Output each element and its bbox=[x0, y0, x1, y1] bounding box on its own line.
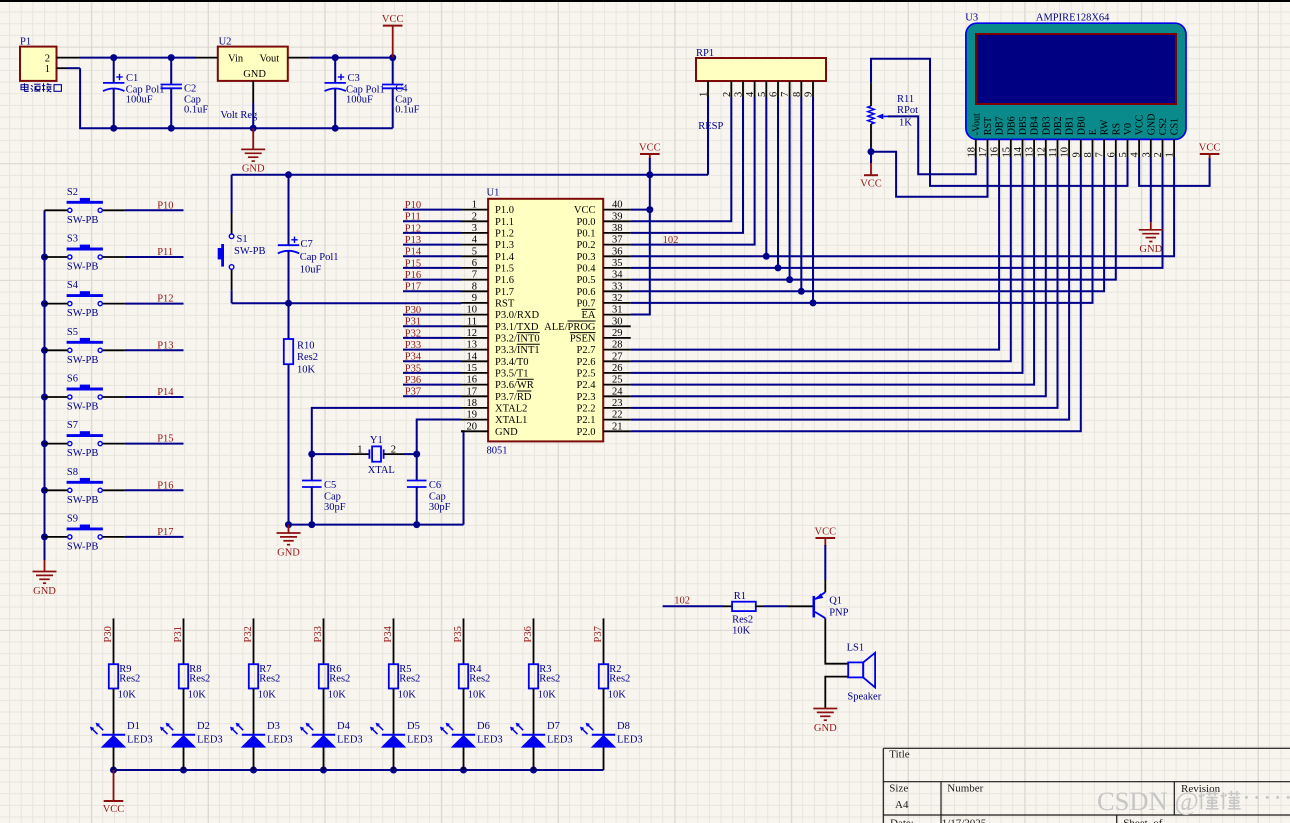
svg-text:P10: P10 bbox=[157, 200, 173, 211]
wire top rail left bbox=[80, 54, 197, 61]
svg-text:P13: P13 bbox=[157, 340, 173, 351]
svg-text:Sheet of: Sheet of bbox=[1123, 817, 1162, 823]
resistor R5 bbox=[389, 664, 421, 700]
svg-text:P10: P10 bbox=[405, 200, 421, 211]
svg-text:P3.6/WR: P3.6/WR bbox=[495, 380, 534, 391]
svg-text:P11: P11 bbox=[157, 247, 173, 258]
wire / net label P14 (switch row) bbox=[125, 387, 184, 398]
U1 pin 33 P0.6 bbox=[577, 281, 631, 298]
svg-text:P1.7: P1.7 bbox=[495, 287, 514, 298]
wire P0.1 to RP1 pin 3 bbox=[631, 97, 743, 233]
wire / net label P16 (U1 pin 7) bbox=[403, 270, 461, 281]
switch S2 bbox=[45, 187, 125, 226]
switch S1 bbox=[218, 175, 266, 303]
wire P0.4 to LCD bbox=[631, 97, 1163, 271]
svg-text:10K: 10K bbox=[118, 689, 137, 700]
U1 pin 4 P1.3 bbox=[461, 235, 514, 252]
U1 pin 2 P1.1 bbox=[461, 211, 514, 228]
resistor R6 bbox=[319, 664, 351, 700]
svg-text:Cap Pol1: Cap Pol1 bbox=[300, 252, 339, 263]
svg-text:P31: P31 bbox=[405, 317, 421, 328]
wire / net label P37 (LED column) bbox=[593, 618, 604, 664]
U3 pin 7 RW bbox=[1095, 119, 1111, 157]
wire / net label P10 (U1 pin 1) bbox=[403, 200, 461, 211]
wire / net label P11 (switch row) bbox=[125, 247, 184, 258]
U1 pin 10 P3.0/RXD bbox=[461, 305, 539, 322]
wire RST net bbox=[232, 300, 461, 307]
svg-text:C7: C7 bbox=[301, 239, 313, 250]
wire U2 GND to rail bbox=[252, 103, 254, 128]
U1 pin 28 P2.7 bbox=[577, 340, 631, 357]
svg-text:GND: GND bbox=[243, 69, 266, 80]
LED D8 bbox=[580, 689, 643, 771]
svg-text:36: 36 bbox=[612, 246, 623, 257]
svg-text:D2: D2 bbox=[197, 721, 210, 732]
U1 pin 29 PSEN bbox=[570, 328, 631, 345]
svg-text:P17: P17 bbox=[405, 282, 421, 293]
svg-text:P1.6: P1.6 bbox=[495, 275, 514, 286]
svg-text:P3.5/T1: P3.5/T1 bbox=[495, 369, 529, 380]
svg-text:Date:: Date: bbox=[890, 817, 914, 823]
svg-text:20: 20 bbox=[467, 421, 478, 432]
RP1 pin 6 drop bbox=[777, 97, 779, 268]
wire XTAL2 to pin 18 bbox=[308, 408, 461, 458]
svg-text:Res2: Res2 bbox=[189, 674, 210, 685]
svg-text:14: 14 bbox=[1013, 146, 1024, 157]
U1 pin 40 VCC bbox=[574, 200, 631, 217]
ground below speaker bbox=[813, 709, 837, 734]
wire / net label P33 (LED column) bbox=[313, 618, 324, 664]
svg-text:Number: Number bbox=[947, 783, 983, 795]
U3 pin 18 -Vout bbox=[966, 113, 982, 158]
svg-text:Size: Size bbox=[889, 783, 908, 795]
svg-text:11: 11 bbox=[1048, 147, 1059, 157]
svg-text:P11: P11 bbox=[405, 212, 421, 223]
svg-text:VCC: VCC bbox=[815, 527, 837, 538]
wire / net label P14 (U1 pin 5) bbox=[403, 247, 461, 258]
svg-text:35: 35 bbox=[612, 258, 623, 269]
svg-text:C6: C6 bbox=[429, 480, 441, 491]
wire P2.5 to LCD DB5 bbox=[631, 157, 1023, 373]
svg-text:RW: RW bbox=[1100, 119, 1111, 135]
svg-text:9: 9 bbox=[804, 92, 815, 97]
wire pot top to V0 (LCD pin 5) bbox=[870, 83, 872, 106]
svg-text:25: 25 bbox=[612, 375, 623, 386]
svg-text:10K: 10K bbox=[538, 689, 557, 700]
RP1 pin 9 bbox=[804, 81, 815, 97]
svg-text:LED3: LED3 bbox=[547, 735, 573, 746]
svg-text:XTAL1: XTAL1 bbox=[495, 415, 527, 426]
svg-text:SW-PB: SW-PB bbox=[67, 402, 99, 413]
U1 pin 14 P3.4/T0 bbox=[461, 351, 529, 368]
svg-text:VCC: VCC bbox=[860, 178, 882, 189]
wire / net label P35 (LED column) bbox=[453, 618, 464, 664]
svg-text:D6: D6 bbox=[477, 721, 490, 732]
svg-text:1: 1 bbox=[472, 200, 477, 211]
svg-text:P12: P12 bbox=[405, 223, 421, 234]
svg-text:P0.6: P0.6 bbox=[577, 287, 596, 298]
svg-text:XTAL2: XTAL2 bbox=[495, 404, 527, 415]
wire P2.0 to LCD DB0 bbox=[631, 157, 1081, 431]
svg-text:102: 102 bbox=[674, 595, 690, 606]
connector P1 bbox=[20, 36, 57, 81]
U1 pin 6 P1.5 bbox=[461, 258, 514, 275]
P1 pin 1 bbox=[57, 67, 67, 69]
voltage regulator U2 bbox=[218, 36, 288, 121]
svg-text:P15: P15 bbox=[405, 258, 421, 269]
svg-text:P0.7: P0.7 bbox=[577, 299, 596, 310]
wire / net label P31 (U1 pin 11) bbox=[403, 317, 461, 328]
svg-text:2: 2 bbox=[722, 92, 733, 97]
U2 pin Vin bbox=[196, 57, 218, 59]
capacitor C1 bbox=[103, 58, 164, 129]
U2 pin GND bbox=[252, 81, 254, 103]
svg-text:8: 8 bbox=[472, 281, 477, 292]
svg-text:RST: RST bbox=[495, 299, 515, 310]
svg-text:RP1: RP1 bbox=[696, 48, 714, 59]
svg-text:8: 8 bbox=[792, 92, 803, 97]
svg-text:9: 9 bbox=[1071, 152, 1082, 157]
capacitor C5 bbox=[302, 454, 346, 524]
svg-text:P3.2/INT0: P3.2/INT0 bbox=[495, 334, 540, 345]
U3 pin 4 VCC bbox=[1130, 114, 1146, 157]
switch S6 bbox=[45, 374, 125, 413]
LED D6 bbox=[440, 689, 503, 771]
svg-text:P34: P34 bbox=[383, 625, 394, 642]
svg-text:A4: A4 bbox=[895, 799, 909, 811]
svg-text:7: 7 bbox=[472, 270, 477, 281]
svg-text:28: 28 bbox=[612, 340, 623, 351]
svg-text:1/17/2025: 1/17/2025 bbox=[942, 817, 987, 823]
svg-text:S5: S5 bbox=[67, 327, 78, 338]
svg-text:100uF: 100uF bbox=[346, 95, 373, 106]
svg-text:GND: GND bbox=[495, 427, 518, 438]
wire P0.7 to LCD bbox=[631, 97, 1093, 306]
power port VCC below pot bbox=[860, 152, 882, 190]
svg-text:P13: P13 bbox=[405, 235, 421, 246]
svg-text:9: 9 bbox=[472, 293, 477, 304]
svg-text:6: 6 bbox=[769, 92, 780, 97]
svg-text:SW-PB: SW-PB bbox=[67, 355, 99, 366]
U3 pin 8 E bbox=[1083, 129, 1099, 157]
LED D1 bbox=[90, 689, 153, 771]
svg-text:E: E bbox=[1088, 129, 1099, 135]
crystal Y1 bbox=[312, 435, 417, 476]
svg-text:P31: P31 bbox=[173, 626, 184, 642]
wire P2.7 to LCD DB7 bbox=[631, 157, 999, 350]
svg-text:P33: P33 bbox=[405, 340, 421, 351]
svg-text:U1: U1 bbox=[487, 187, 500, 198]
svg-text:3: 3 bbox=[472, 223, 477, 234]
svg-text:Title: Title bbox=[889, 749, 910, 761]
svg-text:P35: P35 bbox=[405, 363, 421, 374]
svg-text:5: 5 bbox=[1118, 152, 1129, 157]
svg-text:P0.1: P0.1 bbox=[577, 229, 596, 240]
U3 pin 13 DB4 bbox=[1025, 116, 1041, 157]
svg-text:P36: P36 bbox=[405, 375, 421, 386]
svg-text:102: 102 bbox=[663, 235, 679, 246]
svg-text:1K: 1K bbox=[899, 118, 912, 129]
svg-text:2: 2 bbox=[472, 211, 477, 222]
svg-text:P2.3: P2.3 bbox=[577, 392, 596, 403]
LCD module U3 AMPIRE128X64 bbox=[965, 13, 1186, 140]
wire / net label P12 (U1 pin 3) bbox=[403, 223, 461, 234]
svg-text:P2.5: P2.5 bbox=[577, 369, 596, 380]
RP1 pin 9 drop bbox=[812, 97, 814, 303]
wire VCC to EA pin 31 bbox=[631, 154, 654, 315]
svg-text:11: 11 bbox=[467, 316, 477, 327]
svg-text:Vin: Vin bbox=[228, 54, 244, 65]
svg-text:DB0: DB0 bbox=[1076, 116, 1087, 135]
U1 pin 39 P0.0 bbox=[577, 211, 631, 228]
U1 pin 38 P0.1 bbox=[577, 223, 631, 240]
svg-text:SW-PB: SW-PB bbox=[67, 495, 99, 506]
wire / net label P15 (switch row) bbox=[125, 434, 184, 445]
wire pot bottom junction bbox=[868, 124, 875, 155]
svg-text:D5: D5 bbox=[407, 721, 420, 732]
U3 pin 11 DB2 bbox=[1048, 116, 1064, 157]
svg-text:S2: S2 bbox=[67, 187, 78, 198]
U3 pin 10 DB1 bbox=[1060, 116, 1076, 157]
resistor R7 bbox=[249, 664, 280, 700]
svg-text:17: 17 bbox=[978, 147, 989, 158]
svg-text:SW-PB: SW-PB bbox=[67, 215, 99, 226]
wire VCC pin 40 bbox=[631, 209, 650, 211]
U3 pin 12 DB3 bbox=[1036, 116, 1052, 157]
svg-text:6: 6 bbox=[1106, 152, 1117, 157]
wire P0.6 to LCD bbox=[631, 97, 1104, 295]
svg-text:30: 30 bbox=[612, 316, 623, 327]
svg-text:R10: R10 bbox=[297, 340, 315, 351]
svg-text:DB2: DB2 bbox=[1053, 116, 1064, 135]
svg-text:DB7: DB7 bbox=[995, 116, 1006, 135]
power port VCC top-left bbox=[382, 14, 404, 58]
svg-text:15: 15 bbox=[467, 363, 478, 374]
title block bbox=[883, 748, 1290, 823]
svg-text:37: 37 bbox=[612, 235, 623, 246]
potentiometer R11 RPot bbox=[868, 94, 918, 129]
svg-text:RESP: RESP bbox=[698, 121, 723, 132]
U1 pin 5 P1.4 bbox=[461, 246, 515, 263]
wire / net label P31 (LED column) bbox=[173, 618, 184, 664]
svg-text:D3: D3 bbox=[267, 721, 280, 732]
capacitor C6 bbox=[407, 454, 451, 524]
svg-text:Y1: Y1 bbox=[370, 435, 383, 446]
svg-text:PNP: PNP bbox=[829, 608, 848, 619]
svg-text:10K: 10K bbox=[328, 689, 347, 700]
svg-text:P1.2: P1.2 bbox=[495, 229, 514, 240]
svg-text:P35: P35 bbox=[453, 626, 464, 642]
wire / net label P37 (U1 pin 17) bbox=[403, 387, 461, 398]
switch S5 bbox=[45, 327, 125, 366]
svg-text:10K: 10K bbox=[258, 689, 277, 700]
svg-text:VCC: VCC bbox=[1199, 143, 1221, 154]
U1 pin 17 P3.7/RD bbox=[461, 386, 532, 403]
wire VCC to LCD pin 4 bbox=[1209, 154, 1211, 159]
svg-text:Res2: Res2 bbox=[539, 674, 560, 685]
svg-text:2: 2 bbox=[391, 445, 396, 456]
wire / net label P34 (LED column) bbox=[383, 618, 394, 664]
svg-text:V0: V0 bbox=[1123, 123, 1134, 135]
svg-text:S1: S1 bbox=[237, 234, 248, 245]
U1 pin 1 P1.0 bbox=[461, 200, 514, 217]
wire Q1 collector to speaker bbox=[825, 618, 848, 664]
RP1 pin 7 drop bbox=[789, 97, 791, 280]
wire / net label P11 (U1 pin 2) bbox=[403, 212, 461, 223]
svg-text:P2.6: P2.6 bbox=[577, 357, 596, 368]
svg-text:P0.2: P0.2 bbox=[577, 240, 596, 251]
RP1 pin 8 drop bbox=[800, 97, 802, 291]
svg-text:CS2: CS2 bbox=[1158, 118, 1169, 135]
svg-text:4: 4 bbox=[1130, 152, 1141, 158]
power port VCC above Q1 bbox=[815, 527, 837, 539]
svg-text:10K: 10K bbox=[297, 365, 316, 376]
svg-text:RST: RST bbox=[983, 117, 994, 135]
svg-text:Res2: Res2 bbox=[399, 674, 420, 685]
svg-text:12: 12 bbox=[1036, 147, 1047, 158]
svg-text:8: 8 bbox=[1083, 152, 1094, 157]
svg-text:10K: 10K bbox=[732, 626, 751, 637]
MCU U1 8051 body bbox=[487, 187, 604, 456]
svg-text:24: 24 bbox=[612, 386, 623, 397]
wire / net label P17 (U1 pin 8) bbox=[403, 282, 461, 293]
svg-text:P3.3/INT1: P3.3/INT1 bbox=[495, 345, 540, 356]
svg-text:S6: S6 bbox=[67, 374, 78, 385]
RP1 pin 5 drop bbox=[765, 97, 767, 256]
U1 pin 18 XTAL2 bbox=[461, 398, 527, 415]
svg-text:P34: P34 bbox=[405, 352, 422, 363]
svg-text:LED3: LED3 bbox=[407, 735, 433, 746]
capacitor C4 bbox=[382, 58, 420, 129]
svg-text:P32: P32 bbox=[405, 328, 421, 339]
watermark CSDN bbox=[1097, 782, 1290, 816]
svg-text:GND: GND bbox=[1146, 114, 1157, 136]
wire P2.4 to LCD DB4 bbox=[631, 157, 1034, 385]
svg-text:3: 3 bbox=[734, 92, 745, 97]
U1 pin 37 P0.2 bbox=[577, 235, 631, 252]
svg-text:29: 29 bbox=[612, 328, 623, 339]
svg-text:7: 7 bbox=[1095, 152, 1106, 157]
svg-text:0.1uF: 0.1uF bbox=[395, 104, 419, 115]
svg-text:LED3: LED3 bbox=[477, 735, 503, 746]
U3 pin 6 RS bbox=[1106, 123, 1122, 158]
svg-text:6: 6 bbox=[472, 258, 477, 269]
svg-text:S7: S7 bbox=[67, 420, 78, 431]
svg-text:D8: D8 bbox=[617, 721, 630, 732]
svg-text:P3.7/RD: P3.7/RD bbox=[495, 392, 532, 403]
svg-text:S4: S4 bbox=[67, 280, 79, 291]
svg-text:10uF: 10uF bbox=[300, 264, 322, 275]
wire pot wiper to -Vout (LCD pin 18) bbox=[888, 116, 976, 174]
svg-text:P17: P17 bbox=[157, 527, 173, 538]
svg-text:23: 23 bbox=[612, 398, 623, 409]
U2 pin Vout bbox=[288, 57, 310, 59]
U3 pin 5 V0 bbox=[1118, 123, 1134, 158]
wire / net label P30 (U1 pin 10) bbox=[403, 305, 461, 316]
svg-text:P12: P12 bbox=[157, 294, 173, 305]
RP1 pin 5 bbox=[757, 81, 768, 97]
resistor R1 bbox=[724, 591, 764, 637]
svg-text:39: 39 bbox=[612, 211, 623, 222]
svg-text:SW-PB: SW-PB bbox=[67, 541, 99, 552]
U1 pin 23 P2.2 bbox=[577, 398, 631, 415]
svg-text:DB4: DB4 bbox=[1030, 116, 1041, 135]
svg-text:LED3: LED3 bbox=[617, 735, 643, 746]
svg-text:27: 27 bbox=[612, 351, 623, 362]
svg-text:GND: GND bbox=[277, 547, 300, 558]
svg-text:13: 13 bbox=[467, 340, 478, 351]
U1 pin 32 P0.7 bbox=[577, 293, 631, 310]
svg-text:Res2: Res2 bbox=[259, 674, 280, 685]
svg-text:GND: GND bbox=[33, 586, 56, 597]
svg-text:40: 40 bbox=[612, 200, 623, 211]
svg-text:P1.4: P1.4 bbox=[495, 252, 515, 263]
svg-text:10K: 10K bbox=[608, 689, 627, 700]
svg-text:P3.1/TXD: P3.1/TXD bbox=[495, 322, 539, 333]
svg-text:C4: C4 bbox=[395, 84, 408, 95]
svg-text:P14: P14 bbox=[157, 387, 174, 398]
ground below R10 bbox=[277, 525, 301, 559]
wire P2.1 to LCD DB1 bbox=[631, 157, 1069, 420]
svg-text:P16: P16 bbox=[157, 480, 173, 491]
svg-text:LED3: LED3 bbox=[337, 735, 363, 746]
wire / net label P36 (U1 pin 16) bbox=[403, 375, 461, 386]
svg-text:CSDN @: CSDN @ bbox=[1097, 786, 1199, 816]
svg-text:S9: S9 bbox=[67, 513, 78, 524]
switch S8 bbox=[45, 467, 125, 506]
svg-text:LED3: LED3 bbox=[197, 735, 223, 746]
svg-text:P2.4: P2.4 bbox=[577, 380, 597, 391]
capacitor C7 bbox=[278, 175, 339, 303]
ground below U2 bbox=[241, 128, 265, 175]
wire / net label P15 (U1 pin 6) bbox=[403, 258, 461, 269]
svg-text:C3: C3 bbox=[348, 73, 360, 84]
svg-text:Res2: Res2 bbox=[469, 674, 490, 685]
resistor R4 bbox=[459, 664, 491, 700]
svg-text:SW-PB: SW-PB bbox=[67, 262, 99, 273]
svg-text:Q1: Q1 bbox=[829, 596, 842, 607]
wire bottom rail bbox=[80, 68, 393, 132]
U1 pin 8 P1.7 bbox=[461, 281, 514, 298]
svg-text:VCC: VCC bbox=[639, 143, 661, 154]
svg-text:31: 31 bbox=[612, 305, 623, 316]
wire RP1 pin1 to VCC line bbox=[707, 97, 709, 175]
svg-text:C5: C5 bbox=[324, 480, 336, 491]
U1 pin 36 P0.3 bbox=[577, 246, 631, 263]
svg-text:Speaker: Speaker bbox=[847, 691, 881, 702]
wire speaker return to ground bbox=[825, 677, 848, 709]
wire P2.2 to LCD DB2 bbox=[631, 157, 1058, 408]
wire / net label P10 (switch row) bbox=[125, 200, 184, 211]
wire / net label P13 (U1 pin 4) bbox=[403, 235, 461, 246]
svg-text:16: 16 bbox=[990, 147, 1001, 158]
RP1 pin 2 bbox=[722, 81, 733, 97]
U3 pin 1 CS1 bbox=[1165, 118, 1181, 158]
svg-text:PSEN: PSEN bbox=[570, 334, 596, 345]
LED D5 bbox=[370, 689, 433, 771]
svg-text:P3.0/RXD: P3.0/RXD bbox=[495, 310, 539, 321]
wire switch bus bbox=[41, 210, 48, 560]
svg-text:1: 1 bbox=[45, 64, 50, 75]
U3 pin 14 DB5 bbox=[1013, 116, 1029, 157]
svg-text:VCC: VCC bbox=[574, 205, 596, 216]
svg-text:P1.1: P1.1 bbox=[495, 217, 514, 228]
svg-text:C1: C1 bbox=[126, 73, 138, 84]
svg-text:D4: D4 bbox=[337, 721, 351, 732]
svg-text:P16: P16 bbox=[405, 270, 421, 281]
RP1 pin 4 bbox=[745, 81, 756, 97]
svg-text:Res2: Res2 bbox=[297, 352, 318, 363]
